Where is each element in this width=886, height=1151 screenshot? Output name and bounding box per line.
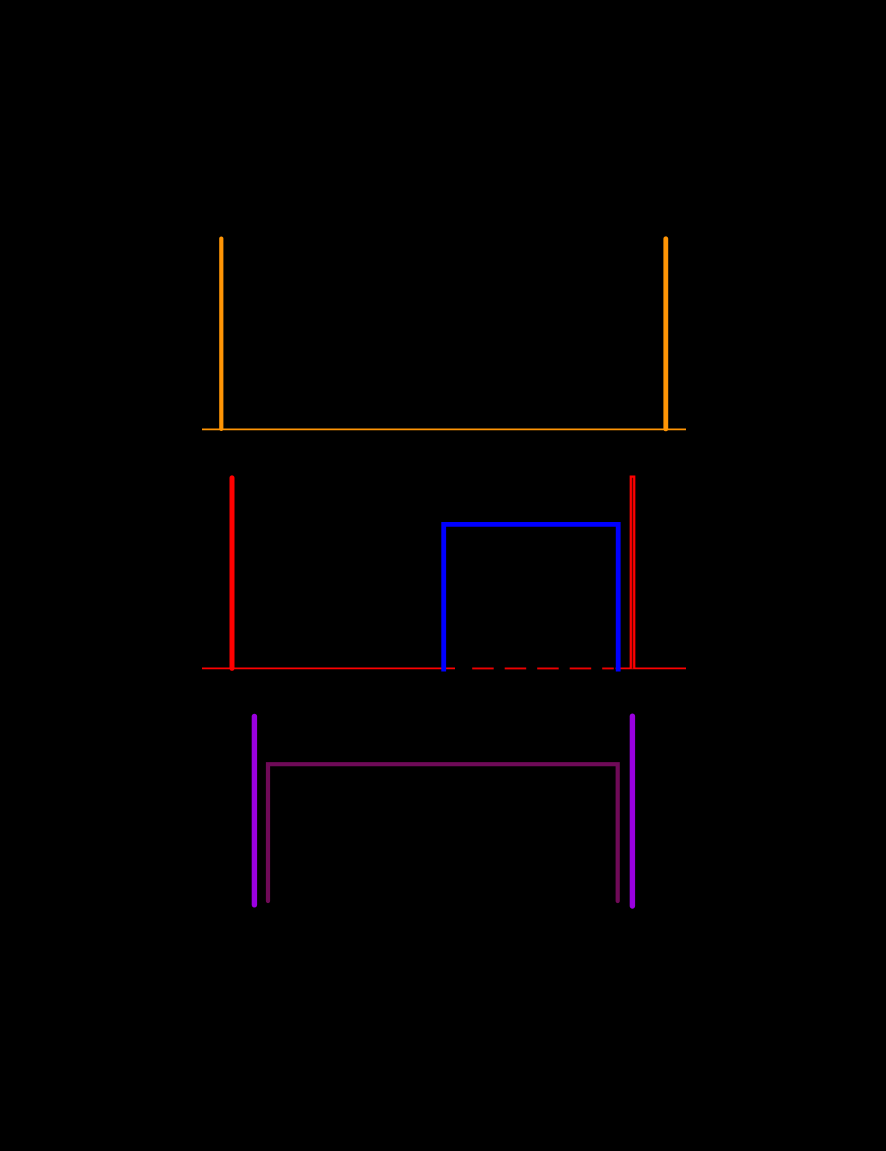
top plot: left orange impulse: [219, 239, 223, 429]
bottom plot: dark magenta rect outline: [268, 764, 618, 901]
top plot: right orange impulse: [663, 239, 668, 429]
top plot: orange baseline: [202, 428, 686, 430]
middle plot: narrow hollow red rect pulse: [631, 477, 635, 669]
bottom plot: right violet impulse: [630, 716, 635, 906]
middle plot: red baseline dashed segment: [472, 667, 614, 669]
bottom plot: left violet impulse: [252, 716, 257, 904]
middle plot: solid red impulse: [230, 478, 235, 669]
middle plot: blue rect pulse: [444, 524, 619, 671]
middle plot: red baseline left solid segment: [202, 667, 455, 669]
middle plot: red baseline right solid segment: [616, 667, 687, 669]
